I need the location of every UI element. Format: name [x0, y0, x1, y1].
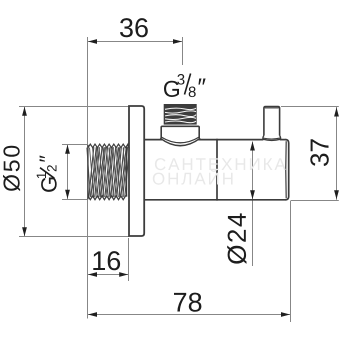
- watermark line 1: [155, 158, 286, 170]
- dim text 37 (rotated): [310, 139, 329, 166]
- valve body mid section: [144, 140, 286, 200]
- dimension and extension lines: [19, 37, 339, 322]
- thread label G3/8": [164, 74, 206, 98]
- valve right cap: [286, 140, 289, 200]
- flange (phi50 plate): [129, 106, 144, 236]
- G1/2 male thread: [89, 147, 130, 197]
- watermark line 2: [153, 169, 233, 185]
- dim text 36: [120, 18, 148, 37]
- dimension arrows: [22, 39, 339, 317]
- G3/8 top thread: [164, 105, 196, 124]
- collar under top thread: [160, 126, 200, 145]
- dim text phi24 (rotated): [227, 213, 246, 264]
- dim text phi50 (rotated): [3, 146, 20, 191]
- dim text 78: [174, 293, 201, 312]
- dim text 16: [93, 251, 120, 270]
- thread label G1/2" (rotated): [37, 156, 57, 192]
- knob stem: [263, 107, 281, 141]
